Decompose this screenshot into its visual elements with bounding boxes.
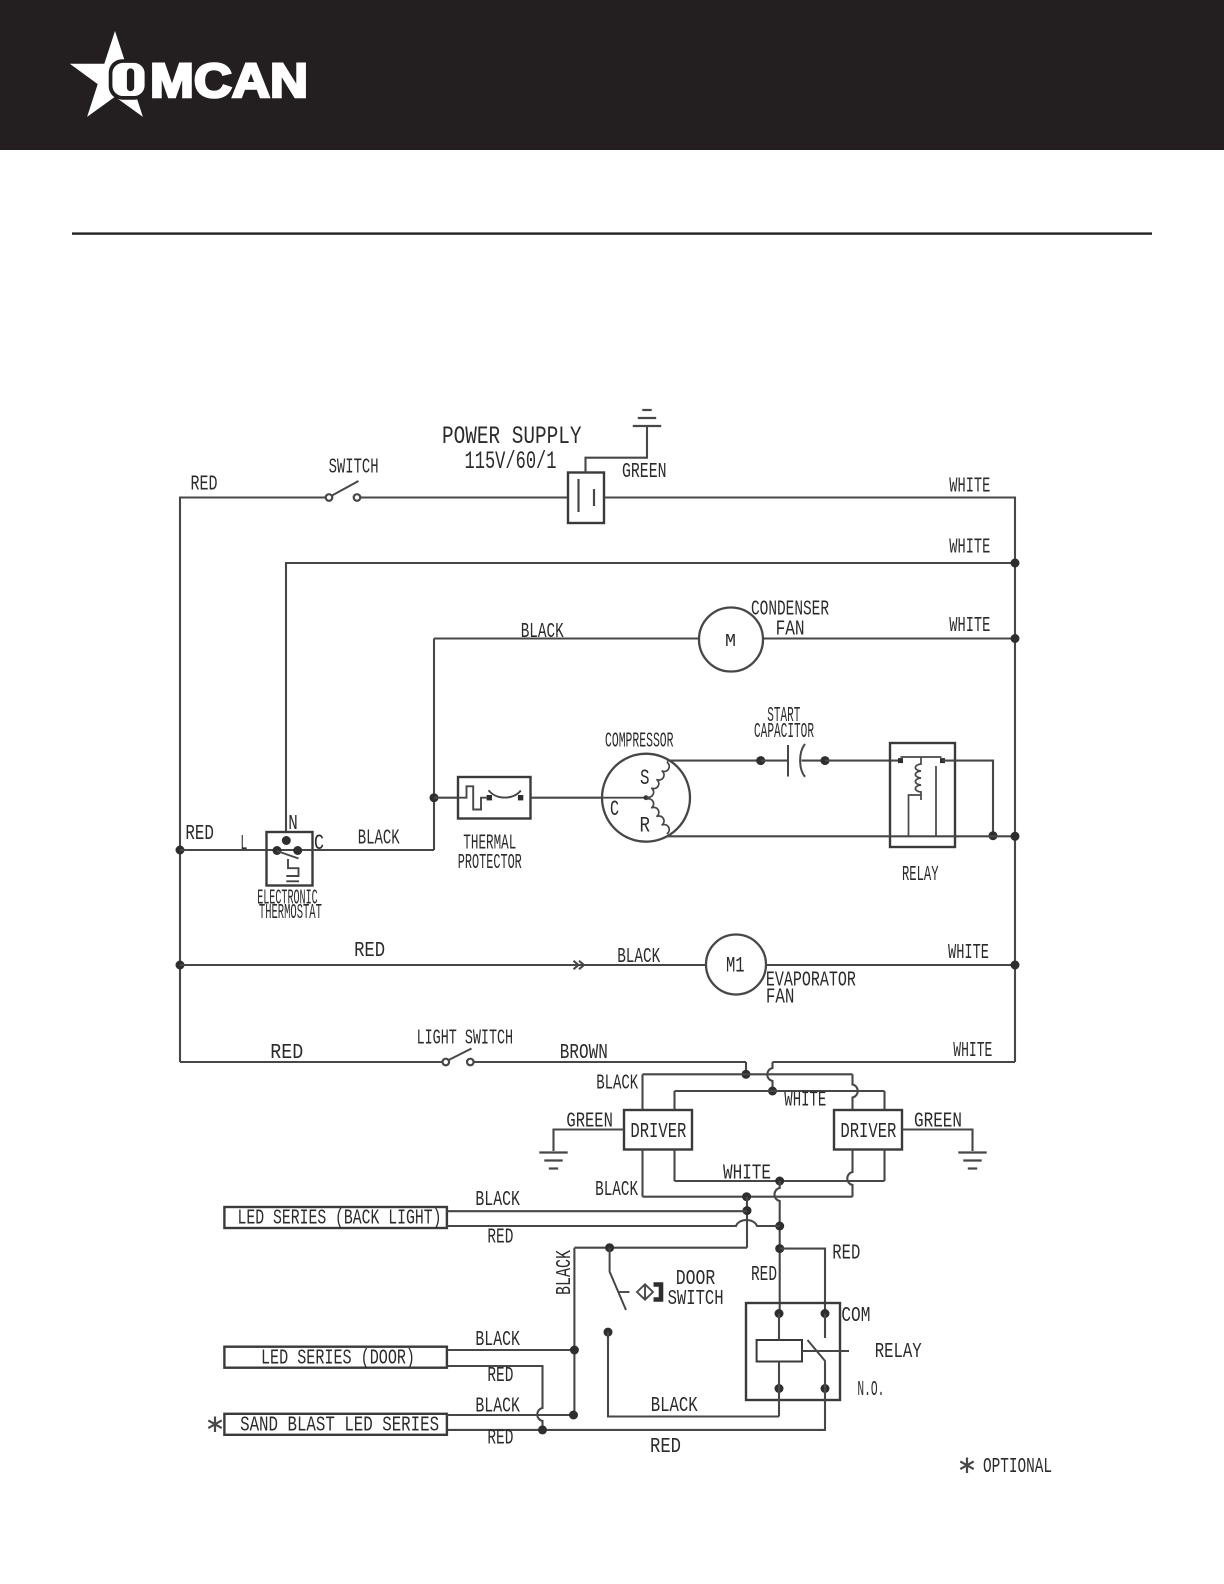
relay RY1 coil branch [909,795,922,836]
wire condenser fan to right bus [763,637,1016,639]
wire green right [902,1130,973,1152]
svg-text:RED: RED [270,1042,303,1065]
relay RY1 right terminal [940,758,945,763]
evaporator fan motor M1 [706,935,766,995]
svg-text:PROTECTOR: PROTECTOR [458,852,522,875]
node left bus thermostat tap [176,846,185,855]
asterisk sand-blast [208,1417,221,1433]
relay RY1 coil [915,757,921,800]
ground symbol right driver [958,1151,986,1153]
svg-text:SWITCH: SWITCH [668,1288,724,1311]
start capacitor flat plate [787,745,789,777]
wire R winding to right bus [667,835,1015,837]
door switch lever [610,1248,626,1310]
wire switch to plug [360,496,568,498]
wire-splice chevrons [574,961,585,969]
plug prong right [593,489,595,506]
electronic thermostat box [267,832,313,886]
svg-text:GREEN: GREEN [622,461,667,484]
svg-text:N: N [288,813,298,836]
relay RY1 left terminal [898,758,903,763]
svg-text:LED SERIES (DOOR): LED SERIES (DOOR) [261,1348,415,1371]
plug prong left [577,479,579,512]
light switch contacts [443,1059,450,1066]
svg-text:RELAY: RELAY [902,864,939,887]
wire red to thermostat [180,849,267,851]
svg-text:BROWN: BROWN [560,1042,608,1065]
wire S to capacitor [667,760,761,762]
svg-text:WHITE: WHITE [953,1040,992,1063]
compressor motor circle [602,754,690,842]
wire black sand-led [447,1414,574,1416]
thermostat heater element [286,859,298,876]
switch S1 lever [332,481,359,496]
relay RY1 top bar [901,756,942,758]
thermostat C contact [293,846,302,855]
relay RY2 coil box [757,1340,802,1362]
wire green left [554,1130,625,1152]
OMCAN logo O white body [112,63,144,96]
svg-text:N.O.: N.O. [857,1379,884,1402]
node relay-R junction [989,831,998,840]
wire coil feed horizontal [574,1247,747,1249]
wire green to ground [586,427,648,473]
wire neutral row2 [286,563,1015,832]
svg-text:WHITE: WHITE [949,537,990,560]
wire left driver black down [641,1150,643,1197]
wire red to light switch [180,1061,443,1063]
wire black left driver lead [641,1074,643,1110]
wire to cap plate [761,760,788,762]
wire coil bottom lead [778,1362,780,1389]
svg-text:THERMOSTAT: THERMOSTAT [259,902,322,925]
start capacitor curved plate [800,744,805,777]
led series door box [224,1347,447,1368]
switch S1 contacts [326,494,333,501]
wire white bottom bus [675,1180,885,1182]
svg-text:C: C [610,797,619,822]
power plug box [568,473,604,524]
node white junction upper [768,1087,777,1096]
svg-text:115V/60/1: 115V/60/1 [465,447,557,476]
svg-text:GREEN: GREEN [914,1111,962,1134]
driver U1 box [624,1110,692,1150]
wire black bottom bus [643,1196,853,1198]
door switch tick [619,1291,630,1293]
compressor center junction [644,795,649,800]
svg-text:BLACK: BLACK [554,1250,577,1295]
svg-text:WHITE: WHITE [949,476,990,499]
svg-text:BLACK: BLACK [475,1189,520,1212]
compressor R winding [646,799,669,834]
wire brown drop to node [745,1062,747,1074]
node brown-black junction [742,1070,751,1079]
svg-text:C: C [314,831,324,856]
wire black to condenser fan [434,637,700,639]
node door-led black junction [570,1346,579,1355]
door switch actuator bracket [654,1285,662,1300]
door switch bottom contact [604,1328,613,1337]
svg-text:OPTIONAL: OPTIONAL [983,1456,1052,1479]
compressor S winding [646,762,669,797]
svg-text:WHITE: WHITE [948,942,989,965]
node sand-led black junction [569,1411,578,1420]
svg-text:WHITE: WHITE [723,1163,771,1186]
node left bus evap tap [176,961,185,970]
svg-text:M1: M1 [726,954,745,979]
thermal protector blade arc [489,790,521,797]
wire relay out right [943,761,994,836]
driver U2 box [834,1110,902,1150]
wire right driver black down with hop [847,1150,852,1197]
relay RY1 armature [935,766,937,836]
svg-text:RED: RED [354,940,385,963]
wire white driver feed [675,1090,885,1092]
led series back light box [224,1207,447,1228]
wire relay NO down [447,1389,825,1430]
svg-text:BLACK: BLACK [475,1329,520,1352]
svg-text:RED: RED [751,1264,777,1287]
wire black right driver lead with hop [853,1074,858,1110]
relay RY2 NO terminal [821,1384,830,1393]
svg-text:BLACK: BLACK [595,1179,638,1202]
wire black back-led [447,1210,747,1212]
relay RY2 coil bottom terminal [775,1384,784,1393]
node red door-led junction [538,1425,547,1434]
svg-text:L: L [240,833,247,856]
node right bus evap [1011,961,1020,970]
svg-text:M: M [725,632,736,652]
wire evap to right bus [766,964,1015,966]
wire right bus [1014,498,1016,1063]
svg-text:BLACK: BLACK [596,1073,638,1096]
condenser fan motor M [699,608,763,672]
sand blast led series box [224,1414,447,1435]
wire thermal to compressor [531,797,603,799]
node right bus row2 [1011,559,1020,568]
node capacitor left [756,756,765,765]
svg-text:SWITCH: SWITCH [329,457,379,480]
relay RY1 box [890,743,955,847]
node right bus compressor row [1011,832,1020,841]
svg-text:COM: COM [841,1305,870,1328]
relay RY2 COM terminal [821,1309,830,1318]
wire red evap row [180,964,706,966]
svg-text:SAND BLAST LED SERIES: SAND BLAST LED SERIES [240,1415,439,1438]
svg-text:BLACK: BLACK [617,946,660,969]
node black led tap [743,1206,752,1215]
asterisk optional [960,1458,973,1474]
OMCAN logo O counter [127,68,134,91]
svg-text:BLACK: BLACK [521,621,564,644]
header black bar [0,0,1224,150]
svg-text:RED: RED [185,823,214,846]
relay RY2 pointer line [802,1350,849,1352]
svg-text:RED: RED [487,1365,513,1388]
node black junction lower [742,1192,751,1201]
wire red vertical with hop [774,1181,779,1314]
wire black driver feed [643,1073,853,1075]
wire brown [474,1061,747,1063]
svg-text:COMPRESSOR: COMPRESSOR [605,731,674,754]
svg-text:S: S [640,766,650,791]
header rule line [72,232,1152,234]
wire COM lead [824,1314,826,1339]
thermostat N contact [282,836,291,845]
svg-text:MCAN: MCAN [150,55,308,108]
svg-text:DRIVER: DRIVER [840,1121,896,1144]
wire left bus [179,498,181,1063]
svg-text:WHITE: WHITE [949,615,990,638]
svg-text:LIGHT SWITCH: LIGHT SWITCH [417,1028,513,1051]
wire thermostat pass-through [267,849,435,851]
thermostat lever [277,851,299,859]
node left-bus top corner / wire to switch [179,496,326,498]
node right bus row3 [1011,634,1020,643]
node capacitor right [821,756,830,765]
wire black door-led [447,1349,575,1351]
svg-text:RED: RED [487,1227,513,1250]
wire red back-led with hop [447,1220,780,1226]
node thermal tap [430,793,439,802]
wire capacitor to relay [825,760,900,762]
thermostat L contact [273,846,282,855]
wire tap to thermal protector [434,797,458,799]
wire white right driver lead [883,1091,885,1110]
thermal protector TP1 box [458,777,531,819]
wire door switch to relay coil [608,1332,779,1416]
wire vertical black drop [433,639,435,851]
svg-text:WHITE: WHITE [784,1090,826,1113]
svg-text:RED: RED [832,1243,860,1266]
wire cap arc to node [802,760,826,762]
svg-text:BLACK: BLACK [651,1395,698,1418]
svg-text:BLACK: BLACK [358,828,400,851]
relay RY2 contact lever [808,1340,826,1362]
svg-text:FAN: FAN [766,987,795,1010]
thermal protector right contact [518,795,523,800]
node red-vert back led [775,1222,784,1231]
wire black led vertical [746,1197,748,1248]
svg-text:CAPACITOR: CAPACITOR [754,721,814,744]
thermal protector left contact [487,795,492,800]
wire white drop with hop [767,1062,772,1091]
svg-text:GREEN: GREEN [566,1111,613,1134]
wire white left driver lead [673,1091,675,1110]
compressor C lead [602,797,646,799]
wire left driver white down [673,1150,675,1182]
ground symbol top [633,425,661,427]
svg-text:RED: RED [487,1428,513,1451]
node red-vert branch [775,1244,784,1253]
svg-text:RELAY: RELAY [875,1341,922,1364]
wire coil top lead [778,1314,780,1341]
svg-text:LED SERIES (BACK LIGHT): LED SERIES (BACK LIGHT) [238,1208,442,1231]
svg-text:RED: RED [191,474,218,497]
door switch actuator diamond [637,1284,653,1299]
wire NO lead [824,1362,826,1389]
svg-text:DRIVER: DRIVER [630,1121,686,1144]
thermal protector bimetal zigzag [458,786,487,809]
svg-text:RED: RED [650,1436,681,1459]
light switch lever [449,1049,472,1061]
node white junction lower [775,1177,784,1186]
OMCAN logo star [70,31,145,117]
wire red branch to relay COM [780,1249,825,1314]
wire relay coil return [778,1389,780,1417]
ground symbol left driver [539,1151,567,1153]
svg-text:R: R [640,814,651,839]
wire led black drop [573,1248,575,1415]
wire white from right bus [773,1061,1016,1063]
node door switch top [605,1243,614,1252]
wire red door-led with hop [447,1366,543,1430]
relay RY2 box [746,1303,840,1400]
wire plug to right bus [604,496,1016,498]
relay RY2 coil terminal top [775,1309,784,1318]
OMCAN logo O outer ring [109,59,149,99]
wire right driver white down [883,1150,885,1182]
